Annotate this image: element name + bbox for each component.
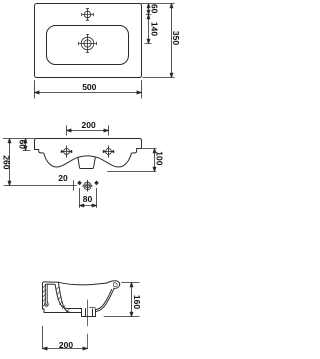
dimension 160 (side view right)	[104, 283, 139, 317]
drain pipe inner walls	[86, 309, 93, 317]
rear bowl wall inner line	[55, 285, 81, 308]
dimension 260 (far left)	[3, 139, 76, 186]
dimension 500 (width, below top view)	[35, 81, 142, 99]
svg-text:20: 20	[58, 173, 68, 183]
left wall foot cap	[45, 302, 48, 306]
front bowl inner surface	[95, 289, 111, 309]
svg-text:60: 60	[149, 4, 159, 14]
centerline (axis)	[87, 300, 89, 349]
svg-text:160: 160	[132, 295, 142, 309]
foot hatch dot	[46, 304, 47, 305]
rear bowl wall outer line	[58, 282, 81, 312]
rim top surface	[58, 282, 106, 285]
channel inner cavity	[45, 284, 55, 302]
dimension 60/140 (right of top view, chained)	[141, 4, 174, 44]
hook inner line	[113, 283, 117, 287]
svg-text:100: 100	[155, 151, 165, 165]
back hanger channel outer wall	[43, 282, 59, 309]
svg-text:260: 260	[2, 155, 12, 169]
svg-text:500: 500	[82, 82, 96, 92]
dimension 20 tick	[73, 181, 75, 191]
svg-text:350: 350	[171, 31, 179, 45]
front rim hook outer	[106, 281, 120, 289]
drain hole symbol (plan)	[79, 35, 97, 53]
drain flange in bowl	[90, 306, 96, 308]
basin bowl (plan)	[47, 26, 129, 65]
fixing hole symbol right	[103, 146, 114, 158]
drain box	[82, 309, 96, 317]
svg-text:80: 80	[83, 194, 93, 204]
stud diamond left	[77, 181, 82, 186]
fixing hole symbol left	[61, 146, 72, 158]
dimension 200 (side view bottom)	[43, 326, 88, 350]
svg-text:60: 60	[17, 140, 27, 150]
hatching rear wall	[56, 287, 70, 312]
svg-text:200: 200	[59, 340, 73, 350]
channel inner liner wall	[46, 285, 48, 302]
dimension 60 (front view left)	[23, 139, 30, 151]
hatching left leg	[43, 285, 46, 307]
tap hole symbol	[82, 9, 94, 21]
back bottom step	[43, 309, 72, 313]
svg-text:140: 140	[150, 22, 160, 36]
svg-text:200: 200	[82, 120, 96, 130]
dimension 80 (below drain)	[80, 188, 97, 207]
front apron outer	[96, 288, 115, 311]
dimension 100 (front view right)	[108, 149, 157, 172]
drain boss notch	[78, 157, 95, 168]
dimension 350 (far right of top view)	[143, 4, 175, 78]
basin front outline	[35, 139, 142, 168]
stud diamond right	[94, 181, 99, 186]
dimension 200 (between fixing holes)	[67, 126, 109, 136]
drain symbol (front view)	[83, 180, 93, 191]
basin outer rim (plan)	[35, 4, 142, 78]
